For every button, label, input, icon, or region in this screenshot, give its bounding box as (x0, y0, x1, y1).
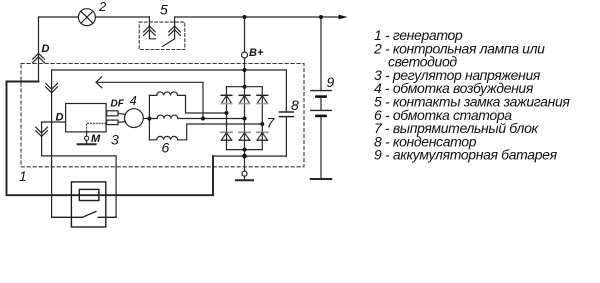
svg-text:5: 5 (160, 2, 168, 18)
regulator box 3 (66, 104, 107, 132)
connector chevron on bus drop (46, 84, 58, 93)
connector chevrons on right stub (169, 26, 181, 35)
generator ground terminal circle (242, 171, 247, 176)
phase feedback wire with arrow (97, 82, 204, 118)
svg-text:B+: B+ (249, 47, 264, 59)
diode D1 (top row) (221, 95, 232, 103)
svg-text:8: 8 (291, 97, 299, 113)
wire: top rail left segment (lamp circuit) (39, 16, 79, 18)
svg-text:DF: DF (111, 99, 125, 110)
lamp L2 (78, 9, 95, 26)
junction phase2 (243, 117, 247, 121)
svg-text:9 - аккумуляторная батарея: 9 - аккумуляторная батарея (374, 147, 558, 163)
rectifier bottom rail (227, 149, 263, 151)
svg-text:2: 2 (98, 0, 107, 14)
arrow to consumers (339, 15, 348, 20)
wire: lamp to switch stub (95, 16, 149, 18)
diode D3 (top row) (257, 95, 268, 103)
fuse box outline (71, 182, 105, 227)
wire: D input line (42, 122, 117, 217)
battery 9 (311, 90, 331, 92)
wire: B+ internal bus (52, 70, 287, 217)
diode D6 (bottom row) (257, 132, 268, 140)
wire rotor to stator bus (143, 118, 149, 120)
stator coil top (149, 92, 226, 113)
wire: to generator ground (244, 156, 246, 171)
wire: switch right stub to battery node (175, 16, 321, 18)
switch blade (82, 212, 96, 218)
junction on stator bus (147, 117, 151, 121)
junction feedback/middle phase (201, 117, 205, 121)
junction battery node (319, 15, 323, 19)
rectifier legs (227, 87, 263, 150)
diode D2 (top row) (239, 95, 250, 103)
capacitor 8 plates (279, 112, 293, 117)
battery drop wire (320, 17, 322, 91)
svg-text:4: 4 (130, 93, 137, 108)
junction phase1 (225, 111, 229, 115)
arrow head (to regulator) (96, 77, 102, 88)
junction top rail / B+ (243, 85, 247, 89)
svg-text:7: 7 (267, 115, 276, 131)
diode D4 (bottom row) (221, 132, 232, 140)
svg-text:6: 6 (162, 140, 170, 156)
switch contact lower: left lead (52, 216, 83, 218)
wire: battery node to consumers arrow (321, 16, 344, 18)
regulator internal dotted link to M (87, 123, 106, 132)
fuse element (79, 189, 99, 200)
M terminal circle (85, 136, 89, 140)
svg-text:1: 1 (19, 168, 27, 184)
wire: B+ terminal drop (244, 17, 246, 87)
rectifier 7: top rail (227, 86, 263, 88)
svg-text:D: D (42, 43, 50, 55)
stator 6: left bus (148, 95, 150, 139)
svg-text:3: 3 (111, 131, 119, 147)
connector chevrons on left stub (144, 26, 156, 35)
junction at top rail (243, 15, 247, 19)
switch right lead (98, 216, 116, 218)
ground (generator case) (244, 176, 246, 180)
switch 5 blade (162, 39, 174, 47)
connector chevron on D input drop (36, 127, 48, 136)
wire: thick outer loop lamp to fuse line (7, 82, 214, 196)
switch 5 right stub wire (174, 17, 176, 39)
wire: lamp drop (terminal D) (38, 17, 40, 82)
legend (373, 27, 570, 163)
stator coil middle (149, 115, 244, 118)
switch 5 left stub wire (149, 17, 155, 39)
junction bus/B+ (243, 68, 247, 72)
generator dashed outline (21, 64, 304, 167)
stator coil bottom (149, 124, 262, 140)
wire: negative collector (213, 150, 286, 157)
diode D5 (bottom row) (239, 132, 250, 140)
capacitor 8 leads (285, 70, 287, 156)
junction phase3 (260, 122, 264, 126)
wire brush to rotor (118, 113, 126, 122)
svg-text:9: 9 (327, 74, 335, 90)
junction bottom rail center (243, 148, 247, 152)
connector chevron at D terminal (33, 53, 45, 62)
ignition contacts box 5 (dashed) (139, 22, 185, 49)
brush (top) DF (107, 111, 118, 116)
rotor / field winding 4 (124, 109, 143, 128)
brush (bottom) (107, 120, 118, 125)
ground M (86, 141, 88, 145)
junction negative collector (242, 154, 247, 159)
B+ terminal circle (242, 52, 248, 58)
svg-text:M: M (91, 133, 101, 145)
